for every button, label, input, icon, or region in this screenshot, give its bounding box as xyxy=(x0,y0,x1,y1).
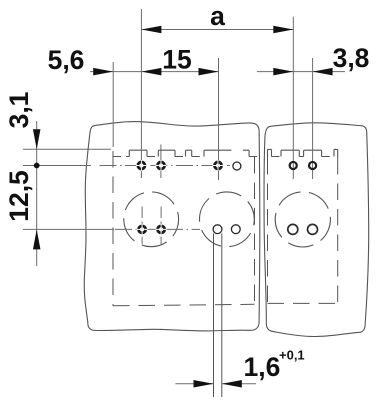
dashed circle right block xyxy=(275,192,330,247)
dashed circle position 2 xyxy=(200,192,255,247)
dashed footprint rectangle right: left edge xyxy=(267,158,269,303)
arrow 15 right xyxy=(199,68,219,76)
pad P12 thin circle xyxy=(308,224,318,234)
svg-text:5,6: 5,6 xyxy=(48,45,85,75)
dimension line a xyxy=(141,29,293,31)
extension line x=293.3 (a right / 3,8 left) xyxy=(292,17,294,179)
arrow 5,6 left xyxy=(93,68,113,76)
dashed footprint rectangle right: right edge xyxy=(337,158,339,303)
pad P7 thin circle xyxy=(213,225,222,234)
pad P1 ring xyxy=(138,162,145,169)
white crosshair over pad P1 xyxy=(136,160,147,171)
pad P10 ring xyxy=(309,162,316,169)
castellated hidden profile left block: base segments xyxy=(113,156,258,158)
extension line x=141.4 (a left / 15 left / pad column) xyxy=(140,9,142,178)
white crosshair over pad P6 xyxy=(156,224,167,235)
extension line x=113.2 (5,6 left) xyxy=(112,62,114,147)
dashed circle position 1 xyxy=(124,192,179,247)
arrow 12,5 up xyxy=(33,229,41,249)
dashed footprint rectangle left: right edge xyxy=(254,157,256,304)
svg-text:3,1: 3,1 xyxy=(4,92,34,129)
dashed footprint rectangle left: bottom edge xyxy=(113,304,255,306)
extension line y=149.3 xyxy=(23,148,111,150)
pad P11 thin circle xyxy=(288,224,298,234)
white crosshair over pad P3 xyxy=(213,160,224,171)
svg-text:15: 15 xyxy=(162,45,191,75)
dimension line 5,6 / 15 xyxy=(90,71,219,73)
hole edge line right x=221.8 xyxy=(221,234,223,398)
pad P3 ring xyxy=(215,162,222,169)
pad P6 ring xyxy=(158,226,165,233)
pad P4 thin circle xyxy=(233,162,241,170)
arrow 15 left xyxy=(141,68,161,76)
body outline right block xyxy=(264,123,369,337)
dot reference row1 xyxy=(34,163,40,169)
centre line row1 horizontal xyxy=(23,165,91,167)
dashed footprint rectangle right: bottom edge xyxy=(268,302,338,304)
arrow 3,8 left xyxy=(273,68,293,76)
extension line x=218.5 (15 right / pad column) xyxy=(218,58,220,180)
castellated hidden profile right block: base segments xyxy=(272,156,335,158)
body outline left block xyxy=(84,122,260,331)
centre line row2 horizontal xyxy=(23,228,114,230)
arrow 1,6 left xyxy=(194,380,214,388)
castellated hidden profile right block: notch tops xyxy=(268,148,338,151)
castellated hidden profile left block: notch sides xyxy=(129,150,249,156)
dashed footprint rectangle left: left edge xyxy=(112,151,114,306)
svg-text:+0,1: +0,1 xyxy=(279,348,305,363)
svg-text:1,6: 1,6 xyxy=(244,352,281,382)
arrow 3,1 down xyxy=(33,129,41,149)
arrow a right xyxy=(273,26,293,34)
dimension line 1,6 xyxy=(175,383,256,385)
centre line pad P5 vertical xyxy=(141,207,143,245)
pad P8 thin circle xyxy=(231,225,240,234)
extension line x=312.6 (3,8 right) xyxy=(312,58,314,179)
arrow 3,8 right xyxy=(313,68,333,76)
arrow a left xyxy=(141,26,161,34)
centre line pad P6 vertical xyxy=(160,207,162,245)
castellated hidden profile right block: notch sides xyxy=(268,149,338,158)
dimension line 3,8 xyxy=(257,71,345,73)
pad P5 ring xyxy=(139,226,146,233)
centre line pad P2 vertical xyxy=(160,145,162,179)
left dimension vertical line xyxy=(36,121,38,266)
white crosshair over pad P2 xyxy=(156,160,167,171)
svg-text:12,5: 12,5 xyxy=(4,170,34,222)
svg-text:3,8: 3,8 xyxy=(333,43,370,73)
white crosshair over pad P5 xyxy=(137,224,148,235)
arrow 1,6 right xyxy=(222,380,242,388)
pad P9 ring xyxy=(290,162,297,169)
svg-text:a: a xyxy=(210,1,225,31)
castellated hidden profile left block: notch tops xyxy=(129,149,249,151)
hole edge line left x=213.5 xyxy=(213,234,215,398)
pad P2 ring xyxy=(158,162,165,169)
